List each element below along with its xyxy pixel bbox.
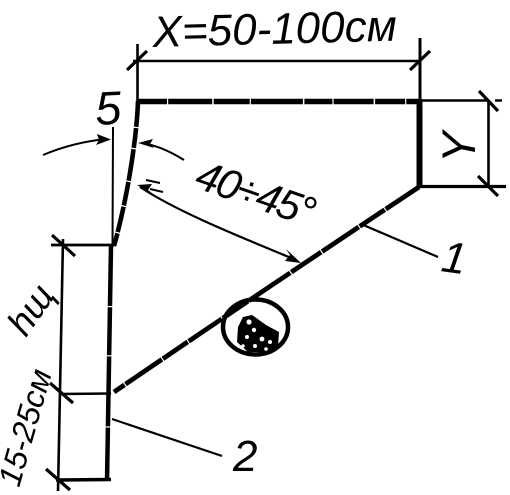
angle arc right arrowhead — [285, 249, 301, 263]
angle arc — [140, 187, 296, 260]
column bottom edge — [56, 478, 111, 482]
Y bottom extension line — [418, 185, 506, 188]
X dimension line — [133, 60, 421, 63]
X dimension left tick — [127, 51, 147, 70]
X dimension right extension line — [419, 38, 422, 101]
right vertical edge — [417, 99, 423, 187]
tick top — [52, 235, 75, 256]
angle arc left arrowhead — [137, 184, 153, 194]
dimension text X=50-100cm — [151, 2, 397, 57]
column right edge (board) — [107, 246, 111, 481]
svg-text:2: 2 — [232, 432, 257, 481]
Y bottom tick — [478, 176, 498, 196]
top edge (thick dashed) — [137, 99, 421, 105]
5-dim right arrow — [142, 143, 184, 160]
svg-text:X=50-100см: X=50-100см — [151, 2, 397, 57]
diagonal edge — [114, 187, 419, 392]
detail circle — [223, 300, 288, 355]
5-dim left arrow — [43, 139, 107, 155]
left column dimension line — [58, 239, 63, 491]
column top edge — [51, 244, 114, 247]
tick middle — [50, 383, 73, 403]
Y top tick — [479, 91, 498, 111]
svg-text:5: 5 — [94, 81, 124, 135]
X dimension right tick — [410, 51, 430, 70]
left slanted edge (top part) — [114, 101, 138, 246]
angle arc dashes near left tip — [146, 180, 163, 192]
plumb reference line — [112, 127, 115, 247]
tick bottom — [46, 469, 70, 490]
Y dimension line — [487, 100, 490, 186]
X dimension left extension line — [136, 44, 139, 101]
top edge thin continuation to Y extension — [421, 99, 502, 102]
leader line to 2 — [112, 419, 222, 456]
hatched blob inside circle — [237, 315, 279, 352]
column divider — [60, 392, 111, 395]
leader line to 1 — [361, 224, 438, 257]
svg-text:Y: Y — [432, 128, 485, 163]
